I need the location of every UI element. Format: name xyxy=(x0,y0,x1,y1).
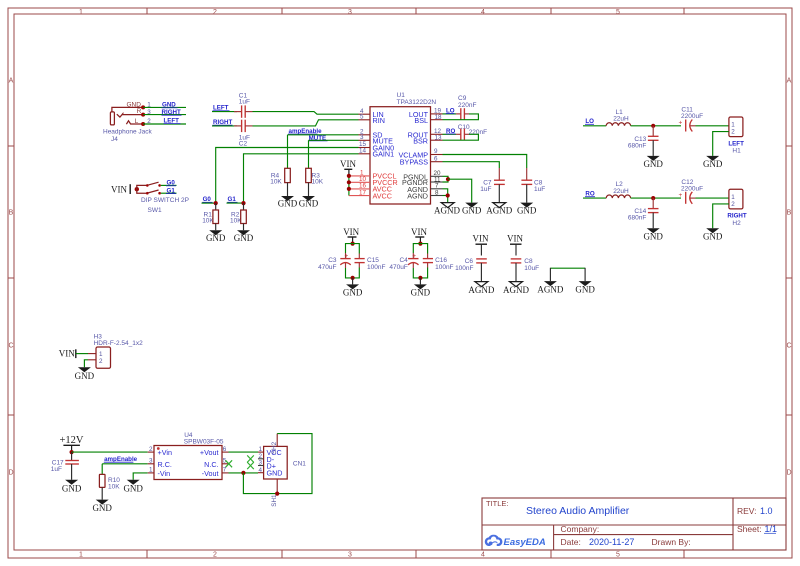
svg-text:680nF: 680nF xyxy=(628,142,646,149)
wire AGND-GND bridge xyxy=(550,267,585,269)
svg-text:A: A xyxy=(9,78,14,85)
svg-text:D: D xyxy=(786,470,791,477)
U1 pin 7 AGND xyxy=(407,183,442,194)
capacitor C13 680nF xyxy=(628,126,659,156)
wire shield loop SH2 to SH1 xyxy=(277,434,312,494)
svg-text:10K: 10K xyxy=(270,179,282,186)
svg-text:1: 1 xyxy=(149,467,153,474)
capacitor C17 1uF xyxy=(51,452,79,480)
svg-text:GND: GND xyxy=(123,483,143,493)
node LEFT label at C1 xyxy=(213,105,230,112)
svg-text:N.C.: N.C. xyxy=(204,460,218,469)
svg-text:4: 4 xyxy=(258,467,262,474)
svg-text:L: L xyxy=(135,118,139,125)
svg-text:2: 2 xyxy=(731,201,735,208)
junction VIN C3 xyxy=(351,242,355,246)
junction -Vout xyxy=(241,471,245,475)
svg-text:-Vin: -Vin xyxy=(158,469,171,478)
svg-text:GND: GND xyxy=(575,285,595,295)
wire VIN to H3 pin1 xyxy=(76,353,88,355)
wire MUTE to U1 pin3 xyxy=(309,139,359,141)
EasyEDA logo xyxy=(485,535,546,548)
connector H1 LEFT xyxy=(728,117,744,155)
svg-text:D: D xyxy=(8,470,13,477)
node G1 label xyxy=(166,187,176,194)
node RO label at filter xyxy=(585,191,595,198)
wire C12 to H2 xyxy=(696,197,729,199)
svg-text:GND: GND xyxy=(206,233,226,243)
wire G0 stub xyxy=(202,202,216,204)
wire L2 to C12 xyxy=(631,197,681,199)
junction L1/C13 xyxy=(651,124,655,128)
U4 pin 3 R.C. xyxy=(148,458,172,469)
wire L1 to C11 xyxy=(631,125,681,127)
power flag VIN at C8b xyxy=(507,234,523,256)
svg-text:B: B xyxy=(787,210,792,217)
node G0 label xyxy=(166,180,176,187)
capacitor C3 470uF polarized xyxy=(318,253,351,271)
svg-text:7: 7 xyxy=(435,183,439,190)
svg-text:6: 6 xyxy=(434,155,438,162)
svg-text:5: 5 xyxy=(616,552,620,559)
svg-text:10K: 10K xyxy=(312,179,324,186)
svg-text:AGND: AGND xyxy=(537,285,563,295)
svg-text:H2: H2 xyxy=(732,220,741,227)
svg-text:VIN: VIN xyxy=(59,349,75,359)
svg-text:1.0: 1.0 xyxy=(760,506,773,516)
wire C9 to BSL xyxy=(443,114,479,120)
ground AGND under C7 xyxy=(486,203,512,216)
junction L2/C14 xyxy=(651,196,655,200)
svg-text:2: 2 xyxy=(149,446,153,453)
svg-text:VIN: VIN xyxy=(340,159,356,169)
capacitor C6 100nF xyxy=(455,258,487,281)
svg-text:GND: GND xyxy=(517,205,537,215)
U1 pin 3 MUTE xyxy=(359,134,394,145)
svg-text:470uF: 470uF xyxy=(389,264,407,271)
U1 pin 12 ROUT xyxy=(408,128,443,139)
svg-text:2: 2 xyxy=(213,552,217,559)
capacitor C2 1uF xyxy=(234,120,253,148)
svg-text:GND: GND xyxy=(62,483,82,493)
capacitor C9 220nF xyxy=(456,95,476,119)
resistor R10 10K xyxy=(99,474,120,499)
svg-text:GAIN1: GAIN1 xyxy=(373,150,395,159)
svg-text:GND: GND xyxy=(462,205,482,215)
power flag VIN at C3 xyxy=(343,227,359,243)
svg-text:680nF: 680nF xyxy=(628,215,646,222)
CN1 pin 2 D- xyxy=(258,453,275,464)
svg-text:2: 2 xyxy=(731,129,735,136)
U4 pin 5 N.C. xyxy=(204,458,228,469)
junction G1 xyxy=(241,201,245,205)
op-amp / amplifier IC U1 TPA3122D2N xyxy=(370,92,436,204)
svg-text:VIN: VIN xyxy=(507,234,523,244)
svg-text:2: 2 xyxy=(99,358,103,365)
wire G1 stub xyxy=(227,202,244,204)
svg-text:18: 18 xyxy=(435,114,443,121)
capacitor C4 470uF polarized xyxy=(389,253,418,271)
svg-text:LEFT: LEFT xyxy=(728,140,744,147)
junction SH1 xyxy=(275,492,279,496)
svg-text:7: 7 xyxy=(223,467,227,474)
wire H2 pin2 to GND xyxy=(713,204,729,228)
power flag VIN at U1 xyxy=(340,159,356,195)
svg-text:GND: GND xyxy=(278,199,298,209)
svg-text:BSL: BSL xyxy=(414,116,428,125)
resistor R3 10K xyxy=(306,168,324,196)
CN1 pin 3 D+ xyxy=(258,460,276,471)
svg-text:GND: GND xyxy=(234,233,254,243)
svg-text:100nF: 100nF xyxy=(367,264,385,271)
ground GND under C14 xyxy=(643,228,663,241)
U1 pin 19 LOUT xyxy=(409,108,443,119)
svg-text:10K: 10K xyxy=(108,483,120,490)
wire C1 to U1 LIN xyxy=(253,112,359,115)
svg-text:BSR: BSR xyxy=(413,136,428,145)
capacitor C14 680nF xyxy=(628,198,659,228)
U1 pin 20 PGNDL xyxy=(403,170,442,181)
svg-text:1: 1 xyxy=(79,9,83,16)
svg-text:C9: C9 xyxy=(458,95,467,102)
junction GND C3 xyxy=(351,276,355,280)
svg-text:17: 17 xyxy=(359,189,367,196)
U1 pin 15 GAIN0 xyxy=(359,141,395,152)
svg-text:GND: GND xyxy=(411,288,431,298)
wire ampEnable down to R10 xyxy=(101,464,103,475)
svg-text:1uF: 1uF xyxy=(480,186,491,193)
wire VCLAMP to C8 xyxy=(443,155,527,169)
wire BYPASS to C7 xyxy=(443,162,500,168)
svg-text:GND: GND xyxy=(343,288,363,298)
U1 pin 5 RIN xyxy=(359,114,385,125)
svg-text:RIN: RIN xyxy=(373,116,385,125)
svg-text:SH1: SH1 xyxy=(271,494,278,507)
wire H3 pin2 to GND xyxy=(84,360,88,368)
svg-text:220nF: 220nF xyxy=(458,102,476,109)
wire U4 pin1 to GND xyxy=(133,473,148,480)
svg-text:BYPASS: BYPASS xyxy=(400,158,428,167)
svg-text:1: 1 xyxy=(731,194,735,201)
headphone jack J4 xyxy=(103,101,153,143)
resistor R2 10K xyxy=(230,203,246,230)
node LO label at pin 19 xyxy=(446,108,455,115)
svg-text:100nF: 100nF xyxy=(455,265,473,272)
wire C3/C15 loop xyxy=(346,244,360,254)
inductor L1 22uH xyxy=(606,109,630,126)
svg-text:AGND: AGND xyxy=(434,205,460,215)
svg-text:1uF: 1uF xyxy=(534,186,545,193)
svg-text:8: 8 xyxy=(435,190,439,197)
ground GND under C8 xyxy=(517,203,537,216)
svg-text:SPBW03F-05: SPBW03F-05 xyxy=(184,439,224,446)
svg-text:REV:: REV: xyxy=(737,506,757,516)
U1 pin 4 LIN xyxy=(359,108,384,119)
svg-text:EasyEDA: EasyEDA xyxy=(504,537,546,548)
ground under R1 xyxy=(206,230,226,243)
svg-text:VIN: VIN xyxy=(473,234,489,244)
svg-text:1: 1 xyxy=(731,122,735,129)
wire G0 from SW1 xyxy=(161,184,177,186)
U1 pin 11 PGNDR xyxy=(402,176,442,187)
junction +12V xyxy=(70,450,74,454)
connector H3 HDR-F-2.54_1x2 xyxy=(94,334,144,369)
svg-text:J4: J4 xyxy=(111,136,118,143)
capacitor C12 2200uF polarized xyxy=(679,179,704,204)
svg-text:GND: GND xyxy=(643,232,663,242)
wire AGND pins join xyxy=(443,189,448,203)
no-connect X on D- xyxy=(247,455,254,462)
no-connect X on U4 pin 5 xyxy=(226,460,233,467)
U1 pin 13 BSR xyxy=(413,135,442,146)
wire C11 to H1 xyxy=(696,125,729,127)
svg-text:2: 2 xyxy=(213,9,217,16)
connector CN1 xyxy=(264,446,307,479)
svg-text:3: 3 xyxy=(258,460,262,467)
capacitor C15 100nF xyxy=(355,254,386,271)
U4 pin 7 -Vout xyxy=(202,467,229,478)
svg-text:AGND: AGND xyxy=(468,285,494,295)
power flag VIN at H3 xyxy=(59,349,76,359)
svg-text:2020-11-27: 2020-11-27 xyxy=(589,537,634,547)
svg-text:TITLE:: TITLE: xyxy=(486,499,509,508)
resistor R1 10K xyxy=(202,203,218,230)
svg-text:AGND: AGND xyxy=(407,192,428,201)
ground GND under pin 11 xyxy=(462,203,482,216)
node ampEnable label at U4 xyxy=(104,456,138,463)
inductor L2 22uH xyxy=(606,181,630,198)
node GND label xyxy=(162,102,178,109)
power flag VIN at C6 xyxy=(473,234,489,256)
wire LO to L1 xyxy=(583,125,606,127)
svg-text:1/1: 1/1 xyxy=(765,524,778,534)
svg-text:22uH: 22uH xyxy=(613,188,629,195)
svg-text:4: 4 xyxy=(481,552,485,559)
ground GND under C13 xyxy=(643,156,663,169)
ground GND under R10 xyxy=(92,500,112,514)
svg-text:6: 6 xyxy=(223,446,227,453)
ground GND at U4 pin1 xyxy=(123,480,143,494)
power flag VIN at C4 xyxy=(411,227,427,243)
wire C2 to U1 RIN xyxy=(253,120,359,126)
svg-text:3: 3 xyxy=(149,458,153,465)
U1 pin 2 SD xyxy=(359,128,383,139)
svg-text:Drawn By:: Drawn By: xyxy=(652,537,691,547)
svg-text:C: C xyxy=(786,343,791,350)
svg-text:9: 9 xyxy=(434,148,438,155)
wire MUTE down to R3 xyxy=(308,140,310,168)
U4 pin 2 +Vin xyxy=(148,446,172,457)
junction VIN C4 xyxy=(418,242,422,246)
node RIGHT label xyxy=(162,109,182,116)
svg-text:GND: GND xyxy=(75,371,95,381)
svg-text:100nF: 100nF xyxy=(435,264,453,271)
ground under R3 xyxy=(299,196,319,209)
ground AGND bridge left xyxy=(537,281,563,295)
svg-text:+12V: +12V xyxy=(59,435,83,446)
svg-text:C2: C2 xyxy=(239,141,248,148)
svg-text:2200uF: 2200uF xyxy=(681,186,703,193)
wire C10 to BSR xyxy=(443,134,479,140)
svg-text:DIP SWITCH 2P: DIP SWITCH 2P xyxy=(141,197,189,204)
node MUTE label xyxy=(308,135,327,142)
resistor R4 10K xyxy=(270,168,290,196)
svg-text:1uF: 1uF xyxy=(51,466,62,473)
svg-text:+: + xyxy=(679,192,683,199)
svg-text:TPA3122D2N: TPA3122D2N xyxy=(397,99,437,106)
svg-text:Sheet:: Sheet: xyxy=(737,524,762,534)
U1 pin 8 AGND xyxy=(407,190,442,201)
H3 pin1 stub xyxy=(88,353,96,355)
wire to GND (power) xyxy=(448,179,472,202)
power module U4 SPBW03F-05 xyxy=(154,432,224,480)
U1 pin 9 VCLAMP xyxy=(398,148,442,159)
U1 pin 18 BSL xyxy=(414,114,442,125)
svg-text:Stereo Audio Amplifier: Stereo Audio Amplifier xyxy=(526,505,630,517)
U1 pin 17 AVCC xyxy=(349,189,392,200)
ground GND under C17 xyxy=(62,480,82,494)
svg-text:Date:: Date: xyxy=(561,537,581,547)
wire -Vout to CN1 GND xyxy=(229,472,259,474)
svg-text:CN1: CN1 xyxy=(293,460,306,467)
node ampEnable label xyxy=(288,128,322,135)
svg-text:+: + xyxy=(679,120,683,127)
capacitor C1 1uF xyxy=(234,92,253,117)
wire ampEnable down to R4 xyxy=(287,135,289,169)
node RIGHT label at C2 xyxy=(213,119,233,126)
DIP switch 2P SW1 xyxy=(111,182,189,214)
wire +12V to U4 pin2 xyxy=(72,451,148,453)
wire GAIN1 xyxy=(244,154,359,203)
CN1 pin 1 VCC xyxy=(258,446,282,457)
ground under C4/C16 xyxy=(411,278,431,298)
wire G1 from SW1 xyxy=(161,192,177,194)
wire +Vout to CN1 VCC xyxy=(229,451,259,453)
svg-text:470uF: 470uF xyxy=(318,264,336,271)
power flag +12V xyxy=(59,435,83,452)
U1 pin 1 PVCCL xyxy=(347,170,397,181)
U4 pin 1 -Vin xyxy=(148,467,170,478)
svg-text:B: B xyxy=(9,210,14,217)
CN1 pin SH2 xyxy=(271,434,278,455)
H3 pin2 stub xyxy=(88,359,96,361)
svg-text:GND: GND xyxy=(92,503,112,513)
svg-text:13: 13 xyxy=(435,135,443,142)
svg-text:1uF: 1uF xyxy=(239,99,250,106)
ground under C3/C15 xyxy=(343,278,363,298)
node LO label at filter xyxy=(585,118,594,125)
capacitor C7 1uF xyxy=(480,168,505,203)
wire PGNDL-PGNDR join xyxy=(443,176,449,182)
wire C4/C16 loop xyxy=(413,244,427,254)
svg-text:22uH: 22uH xyxy=(613,116,629,123)
svg-text:GND: GND xyxy=(299,199,319,209)
svg-text:VIN: VIN xyxy=(411,227,427,237)
wire -Vout to shield xyxy=(243,473,277,494)
U1 pin 10 PVCCR xyxy=(347,176,398,187)
svg-text:1: 1 xyxy=(79,552,83,559)
title block xyxy=(482,498,786,550)
ground under R2 xyxy=(234,230,254,243)
junction at PGNDR xyxy=(446,177,450,181)
svg-text:GND: GND xyxy=(703,232,723,242)
node G0 label at R1 xyxy=(202,196,212,203)
connector H2 RIGHT xyxy=(727,189,746,227)
svg-text:-Vout: -Vout xyxy=(202,469,219,478)
svg-text:VIN: VIN xyxy=(343,227,359,237)
wire LEFT to C1 xyxy=(212,111,237,113)
svg-text:SW1: SW1 xyxy=(148,207,162,214)
junction G0 xyxy=(214,201,218,205)
wire RIGHT to C2 xyxy=(212,125,237,127)
capacitor C8 10uF xyxy=(511,258,539,281)
capacitor C8 1uF xyxy=(521,168,545,203)
U4 pin 6 +Vout xyxy=(200,446,229,457)
ground GND under H3 xyxy=(75,367,95,381)
svg-text:GND: GND xyxy=(267,469,283,478)
junction GND C4 xyxy=(418,276,422,280)
node RO label at pin 12 xyxy=(446,128,456,135)
svg-text:+Vout: +Vout xyxy=(200,448,219,457)
svg-text:AGND: AGND xyxy=(486,205,512,215)
wire H1 pin2 to GND xyxy=(713,132,729,156)
svg-text:Headphone Jack: Headphone Jack xyxy=(103,129,153,136)
capacitor C10 220nF xyxy=(456,124,487,140)
svg-text:AGND: AGND xyxy=(503,285,529,295)
U1 pin 6 BYPASS xyxy=(400,155,443,166)
svg-text:3: 3 xyxy=(348,9,352,16)
ground GND under H2 xyxy=(703,228,723,241)
svg-text:Company:: Company: xyxy=(561,524,600,534)
ground under R4 xyxy=(278,196,298,209)
U1 pin 14 GAIN1 xyxy=(359,148,395,159)
wire ampEnable to U4 pin3 xyxy=(102,463,148,465)
ground GND bridge right xyxy=(575,281,595,295)
U1 pin 16 AVCC xyxy=(347,183,392,194)
wire RO to L2 xyxy=(583,197,606,199)
svg-text:SH2: SH2 xyxy=(271,441,278,454)
svg-text:4: 4 xyxy=(481,9,485,16)
wire net LEFT from J4 pin2 xyxy=(143,123,186,125)
wire ampEnable to U1 SD xyxy=(288,134,359,136)
svg-text:14: 14 xyxy=(359,148,367,155)
svg-text:HDR-F-2.54_1x2: HDR-F-2.54_1x2 xyxy=(94,340,144,347)
svg-text:RIGHT: RIGHT xyxy=(727,213,746,220)
CN1 pin SH1 xyxy=(271,479,278,507)
node G1 label at R2 xyxy=(227,196,237,203)
svg-text:3: 3 xyxy=(360,134,364,141)
ground AGND under pins 7/8 xyxy=(434,203,460,216)
svg-text:+Vin: +Vin xyxy=(158,448,172,457)
capacitor C11 2200uF polarized xyxy=(679,107,704,132)
svg-text:AVCC: AVCC xyxy=(373,191,392,200)
svg-text:GND: GND xyxy=(703,159,723,169)
no-connect X on D+ xyxy=(247,462,254,469)
ground AGND under C8 xyxy=(503,282,529,296)
capacitor C16 100nF xyxy=(423,254,454,271)
wire GAIN0 xyxy=(216,148,359,204)
node LEFT label xyxy=(164,117,181,124)
svg-text:5: 5 xyxy=(360,114,364,121)
ground AGND under C6 xyxy=(468,282,494,296)
svg-text:C: C xyxy=(8,343,13,350)
svg-text:5: 5 xyxy=(616,9,620,16)
wire net GND from J4 pin1 xyxy=(143,106,186,108)
wire LOUT to C9 xyxy=(443,113,457,115)
svg-text:GND: GND xyxy=(643,159,663,169)
wire ROUT to C10 xyxy=(443,133,457,135)
svg-text:R: R xyxy=(137,108,142,115)
